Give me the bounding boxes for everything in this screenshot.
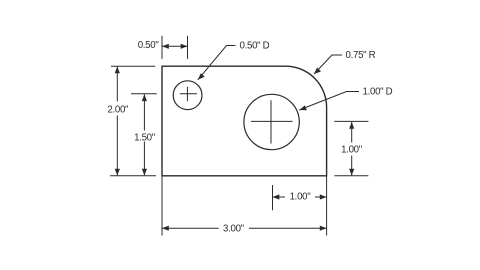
svg-text:0.50": 0.50" [138,40,160,51]
svg-text:2.00": 2.00" [107,105,129,116]
svg-text:1.00": 1.00" [290,191,312,202]
svg-text:1.00": 1.00" [341,144,363,155]
svg-text:0.50" D: 0.50" D [240,41,270,52]
svg-text:1.00" D: 1.00" D [363,87,393,98]
svg-text:1.50": 1.50" [134,132,156,143]
svg-text:0.75" R: 0.75" R [346,50,376,61]
svg-text:3.00": 3.00" [223,223,245,234]
